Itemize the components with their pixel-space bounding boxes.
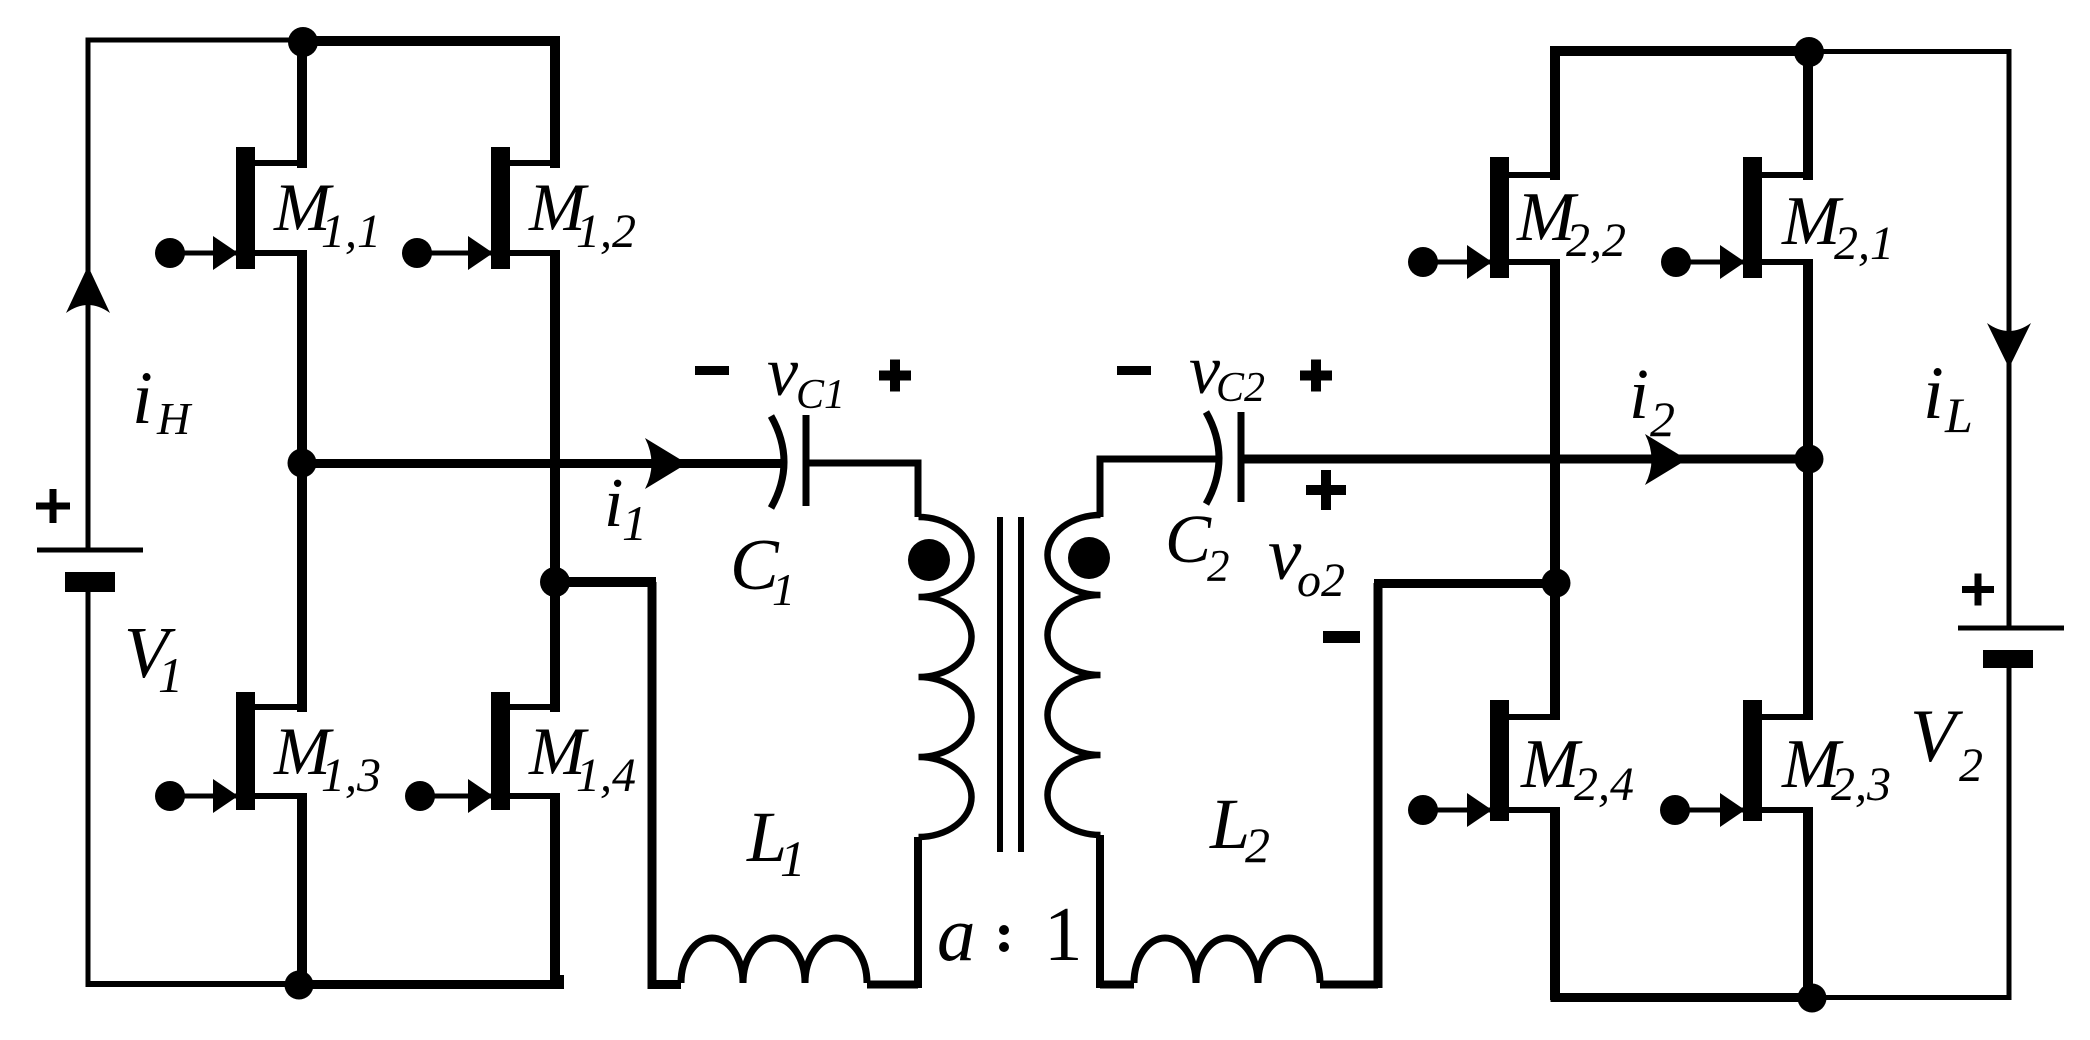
wire tank mid wire from node A to capacitor C1	[302, 459, 782, 468]
polarity dot secondary	[1068, 537, 1110, 579]
wire left outer vertical upper (V1 plus terminal to top rail)	[86, 40, 91, 550]
svg-text:1: 1	[780, 832, 806, 888]
wire leg1 source of M1,3 to bottom rail	[297, 796, 307, 986]
wire bottom rail right thick segment	[302, 975, 560, 985]
transformer primary winding L1	[919, 517, 972, 837]
capacitor C2	[1206, 412, 1241, 504]
svg-text:2,2: 2,2	[1566, 214, 1626, 267]
svg-text:o2: o2	[1297, 554, 1345, 607]
transistor M2,4	[1408, 700, 1560, 827]
node B : leg2 output node	[540, 567, 570, 597]
svg-text:2: 2	[1207, 541, 1230, 591]
svg-text:2: 2	[1959, 739, 1983, 792]
current arrow i1 on tank wire	[645, 438, 687, 489]
svg-text:i: i	[604, 465, 623, 542]
svg-text:V: V	[1910, 695, 1964, 778]
svg-text:C1: C1	[796, 372, 845, 418]
svg-text:1: 1	[622, 495, 647, 551]
transformer core lines	[1000, 517, 1021, 852]
svg-text:1: 1	[772, 564, 795, 615]
current arrow iL pointing down	[1987, 323, 2031, 368]
svg-text:2,3: 2,3	[1831, 758, 1891, 811]
label plus of vC2	[1300, 360, 1332, 392]
wire primary bottom feeder	[914, 837, 922, 988]
svg-text:C: C	[1165, 501, 1212, 577]
plus sign of source V2	[1962, 574, 1994, 606]
label minus of vC2	[1117, 366, 1151, 375]
label plus of vC1	[879, 360, 911, 392]
transistor M1,2	[402, 147, 560, 270]
wire leg4 source of M2,3 to bottom rail	[1803, 810, 1813, 1000]
wire leg2 drain of M1,2 (top rail corner to drain stub)	[550, 41, 560, 168]
label plus of vo2	[1306, 470, 1346, 510]
wire leg3 source of M2,2 down to node C	[1550, 262, 1560, 717]
wire node B to inductor L1	[555, 577, 656, 587]
inductor L2 bottom right	[1100, 583, 1378, 988]
wire leg3 drain of M2,2	[1550, 51, 1560, 180]
battery V1 short thick plate	[65, 572, 115, 592]
wire left outer vertical lower (V1 minus terminal to bottom rail)	[86, 592, 91, 986]
transistor M2,3	[1660, 700, 1813, 827]
current arrow iH on left outer wire	[66, 266, 110, 313]
transistor M2,2	[1408, 157, 1560, 279]
node dot top-left rail	[288, 27, 318, 57]
wire bottom rail right thick segment	[1555, 990, 1809, 998]
svg-text:1: 1	[1044, 891, 1083, 977]
svg-text:i: i	[1629, 354, 1649, 434]
battery V2 long plate	[1958, 626, 2064, 631]
node dot bottom-left rail	[285, 971, 314, 1000]
wire leg3 source of M2,4 to bottom rail	[1550, 810, 1560, 1000]
svg-text:2: 2	[1245, 817, 1270, 873]
svg-text:1,4: 1,4	[576, 749, 636, 802]
wire top rail right thick segment	[304, 36, 560, 46]
node D : i2 node on leg4	[1795, 445, 1824, 474]
wire top rail right thin segment	[1809, 49, 2012, 54]
transistor M2,1	[1661, 157, 1813, 279]
inductor L1 (series leakage) bottom left	[652, 582, 918, 985]
node C : vo2 node on leg3	[1542, 569, 1571, 598]
svg-text:a: a	[937, 891, 976, 977]
wire bottom rail right thin segment	[1809, 995, 2012, 1000]
svg-text:v: v	[767, 334, 799, 411]
battery V2 short thick plate	[1983, 650, 2033, 668]
wire bottom rail left thin segment	[86, 981, 303, 987]
svg-text:2,4: 2,4	[1574, 758, 1634, 811]
svg-text:i: i	[1923, 352, 1944, 435]
svg-text:1,2: 1,2	[576, 205, 636, 258]
svg-text:L: L	[1944, 387, 1973, 443]
plus sign of source V1	[36, 489, 70, 523]
label minus of vo2	[1323, 631, 1360, 643]
wire leg4 source of M2,1 down to node D	[1803, 262, 1813, 717]
transistor M1,1	[155, 147, 307, 270]
wire C2 to right bridge node on leg4	[1244, 455, 1809, 464]
capacitor C1	[771, 415, 806, 508]
svg-text:2: 2	[1650, 391, 1675, 447]
wire leg1 mid node down to M1,3 drain stub	[297, 459, 307, 712]
wire leg2 source of M1,2 down through crossing to M1,4 drain stub	[550, 253, 560, 712]
wire vo2 node to leg3 node	[1374, 579, 1556, 588]
wire secondary top to capacitor C2	[1100, 459, 1216, 517]
transformer secondary winding	[1048, 515, 1101, 835]
transistor M1,4	[405, 692, 560, 813]
wire leg1 drain of M1,1 (top rail to drain stub)	[297, 41, 307, 168]
svg-text:i: i	[132, 357, 153, 440]
svg-text:1,1: 1,1	[321, 205, 381, 258]
node dot top-right rail	[1794, 37, 1824, 67]
battery V1 long plate	[37, 548, 143, 553]
svg-text:2,1: 2,1	[1834, 217, 1894, 270]
wire right outer vertical lower (V2 minus plate to bottom rail)	[2007, 668, 2012, 998]
svg-text:1,3: 1,3	[321, 749, 381, 802]
wire secondary top feeder to C2 wire corner	[1096, 835, 1104, 988]
label minus of vC1	[695, 366, 729, 375]
node A : left bridge output node	[288, 449, 317, 478]
current arrow i2	[1645, 434, 1687, 485]
wire top rail left thin segment	[86, 38, 305, 43]
svg-text:C2: C2	[1216, 365, 1265, 411]
svg-text:1: 1	[158, 647, 183, 703]
wire C1 to transformer primary top	[808, 463, 918, 517]
wire leg2 source of M1,4 to bottom rail	[550, 796, 560, 986]
polarity dot primary	[908, 539, 950, 581]
wire leg4 drain of M2,1	[1803, 51, 1813, 180]
wire top rail right thick segment	[1555, 51, 1809, 60]
wire right outer vertical upper (top rail to V2 plus plate)	[2007, 51, 2012, 628]
wire leg1 source of M1,1 down to mid node	[297, 253, 307, 467]
node dot bottom-right rail	[1798, 984, 1827, 1013]
transistor M1,3	[155, 692, 307, 813]
svg-text:L: L	[1209, 784, 1250, 864]
svg-text:H: H	[156, 393, 193, 444]
